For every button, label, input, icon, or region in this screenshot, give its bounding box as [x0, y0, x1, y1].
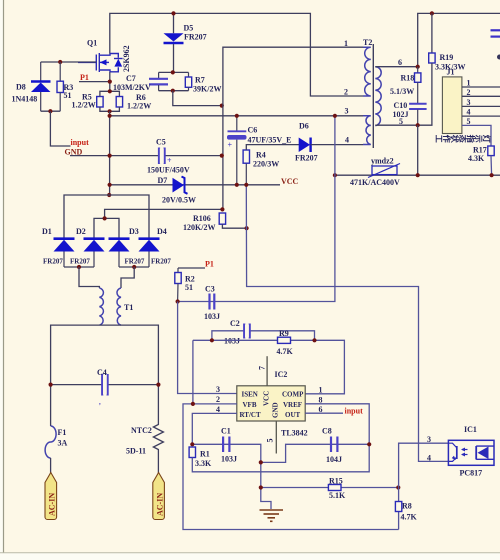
svg-text:FR207: FR207 [151, 258, 171, 266]
wire top rail left [110, 13, 363, 96]
capacitor C7 [149, 72, 168, 90]
connector AC-IN right terminal [153, 473, 165, 520]
diode D3 [109, 239, 130, 267]
svg-text:FR207: FR207 [70, 258, 90, 266]
wire OUT row [305, 412, 343, 414]
svg-text:C5: C5 [156, 138, 166, 147]
diode D4 [139, 239, 160, 267]
wire R2 ISEN column [178, 302, 237, 394]
wire C7 R7 bottom rail [159, 90, 189, 92]
svg-text:PC817: PC817 [460, 469, 483, 478]
svg-text:102J: 102J [393, 110, 409, 119]
svg-text:4: 4 [216, 405, 220, 414]
capacitor C3 [210, 294, 215, 310]
svg-text:471K/AC400V: 471K/AC400V [350, 178, 400, 187]
svg-text:+: + [167, 156, 172, 165]
connector J1 [442, 68, 462, 134]
svg-text:3: 3 [467, 98, 471, 107]
svg-text:1.2/2W: 1.2/2W [72, 101, 96, 110]
svg-text:220/3W: 220/3W [253, 160, 279, 169]
svg-text:2: 2 [467, 88, 471, 97]
node varistor row left junction [333, 173, 337, 177]
wire T1 bottom row [51, 325, 100, 426]
wire ground drop [261, 462, 271, 509]
diode D7 zener [173, 177, 188, 194]
svg-text:120K/2W: 120K/2W [183, 223, 215, 232]
node VFB junction [191, 402, 195, 406]
svg-text:AC-IN: AC-IN [155, 493, 164, 516]
svg-text:150UF/450V: 150UF/450V [147, 166, 190, 175]
wire D8 R3 bottom wire [41, 110, 61, 112]
svg-text:OUT: OUT [285, 411, 301, 419]
LED clipped at right edge [491, 30, 500, 36]
svg-text:R18: R18 [401, 74, 415, 83]
node gate R3 junction [58, 60, 62, 64]
node C4 left junction [49, 383, 53, 387]
resistor R17 [488, 146, 494, 175]
node T2 pin3 junction [333, 114, 337, 118]
node varistor row pin5 junction [416, 173, 420, 177]
svg-text:灯: 灯 [482, 135, 492, 143]
svg-text:P1: P1 [80, 73, 89, 82]
resistor R1 [189, 404, 369, 472]
node dip junction [259, 460, 263, 464]
svg-text:VFB: VFB [243, 401, 257, 409]
capacitor C2 [244, 324, 250, 339]
wire C4 row [51, 384, 159, 386]
IC optocoupler IC1 PC817 [448, 440, 494, 465]
svg-text:39K/2W: 39K/2W [193, 85, 221, 94]
svg-text:5: 5 [467, 117, 471, 126]
wire J1 pin3 row [462, 105, 500, 107]
svg-text:+: + [228, 141, 233, 150]
svg-text:D4: D4 [157, 227, 167, 236]
node R19 tap junction [430, 11, 434, 15]
node Q1 source junction [108, 80, 112, 84]
svg-text:VREF: VREF [283, 401, 302, 409]
svg-text:D5: D5 [184, 24, 194, 33]
svg-text:ymdz2: ymdz2 [371, 157, 394, 166]
capacitor C5 [159, 148, 172, 166]
wire R4 bottom to PC817 route [246, 185, 448, 462]
svg-text:47UF/35V_E: 47UF/35V_E [248, 136, 292, 145]
wire y116 row to T2 pin3 [110, 115, 363, 117]
wire C1 C8 row with dip [192, 444, 369, 462]
capacitor C8 [331, 437, 337, 453]
wire Q1 source lead [109, 72, 111, 91]
node C2 left junction [210, 338, 214, 342]
node pair left junction [77, 265, 81, 269]
svg-text:C7: C7 [126, 74, 136, 83]
svg-text:C2: C2 [230, 319, 240, 328]
svg-text:IC1: IC1 [464, 425, 477, 434]
node D7 row left junction [108, 183, 112, 187]
svg-text:R4: R4 [256, 151, 266, 160]
IC op-amp U IC2 TL3842 box [237, 386, 305, 421]
wire J1 pin1 row [462, 86, 500, 88]
svg-text:C3: C3 [205, 285, 215, 294]
diode D6 [299, 138, 363, 153]
resistor R3 [57, 62, 63, 111]
resistor R5 [97, 91, 120, 107]
svg-text:2: 2 [216, 395, 220, 404]
svg-text:R19: R19 [440, 53, 454, 62]
transistor Q1 MOSFET symbol [78, 53, 123, 72]
svg-text:C1: C1 [221, 427, 231, 436]
resistor R106 [219, 213, 246, 228]
svg-text:103J: 103J [221, 455, 237, 464]
svg-text:103J: 103J [224, 337, 240, 346]
svg-text:R8: R8 [402, 502, 412, 511]
svg-text:D2: D2 [76, 227, 86, 236]
svg-text:R7: R7 [195, 76, 205, 85]
svg-text:input: input [345, 407, 364, 416]
svg-text:104J: 104J [326, 455, 342, 464]
wire J1 pin5 row to R17 [462, 125, 491, 146]
svg-text:T2: T2 [363, 38, 372, 47]
svg-text:COMP: COMP [282, 391, 304, 399]
svg-text:F1: F1 [58, 428, 67, 437]
node C4 right junction [156, 383, 160, 387]
svg-text:20V/0.5W: 20V/0.5W [162, 196, 196, 205]
resistor R7 [185, 72, 191, 90]
svg-text:6: 6 [398, 58, 402, 67]
thermistor NTC2 [153, 422, 163, 454]
node y116 left junction [108, 114, 112, 118]
wire RTCT row riser [192, 413, 237, 444]
wire IC2 pin5 stub [275, 421, 277, 454]
svg-text:4: 4 [467, 108, 471, 117]
node C3 row junction [176, 299, 180, 303]
svg-text:VCC: VCC [281, 177, 299, 186]
wire F1 to terminal [50, 458, 52, 473]
svg-text:8: 8 [319, 395, 323, 404]
wire P1 stub 2 [178, 267, 205, 269]
svg-text:T1: T1 [124, 303, 133, 312]
node D5 top junction [171, 11, 175, 15]
svg-text:C8: C8 [322, 427, 332, 436]
svg-text:AC-IN: AC-IN [48, 493, 57, 516]
transformer T2 secondary winding [375, 67, 381, 126]
svg-text:FR207: FR207 [184, 33, 207, 42]
node R4 bottom junction [244, 183, 248, 187]
wire T2 pin5 row [375, 124, 417, 126]
svg-text:D8: D8 [16, 83, 26, 92]
resistor R4 [243, 145, 299, 185]
resistor R8 [395, 502, 401, 512]
svg-text:R9: R9 [279, 329, 289, 338]
node rail C junction [103, 216, 107, 220]
diode D2 [84, 239, 105, 267]
svg-text:1: 1 [319, 385, 323, 394]
wire VFB row [183, 404, 399, 530]
svg-text:VCC: VCC [263, 391, 271, 406]
svg-text:D3: D3 [129, 227, 139, 236]
node R15 left junction [259, 485, 263, 489]
svg-text:ISEN: ISEN [242, 391, 258, 399]
svg-text:R1: R1 [200, 450, 210, 459]
varistor ymdz2 [368, 164, 400, 178]
wire Q1 gate wire to D8 [41, 61, 97, 63]
node R5R6 top junction [108, 89, 112, 93]
svg-text:RT/CT: RT/CT [240, 411, 261, 419]
svg-text:3A: 3A [58, 439, 68, 448]
svg-text:P1: P1 [205, 260, 214, 269]
node R106 bottom junction [245, 226, 249, 230]
svg-text:IC2: IC2 [275, 370, 288, 379]
wire T2 pin6 row [375, 66, 417, 68]
resistor R6 [100, 97, 123, 112]
svg-text:示: 示 [474, 134, 483, 143]
svg-text:4: 4 [345, 136, 349, 145]
wire T1 winding1 top lead [79, 267, 99, 288]
node C7R7 bottom junction [171, 89, 175, 93]
svg-text:TL3842: TL3842 [281, 429, 308, 438]
svg-text:3: 3 [345, 107, 349, 116]
svg-text:1: 1 [344, 39, 348, 48]
capacitor C1 [223, 437, 229, 453]
svg-text:C6: C6 [248, 126, 258, 135]
wire input stub [50, 111, 70, 146]
transformer T2 primary winding 1 [363, 47, 371, 96]
wire D7 VCC row [110, 184, 280, 186]
connector AC-IN left terminal [45, 473, 57, 520]
svg-text:J1: J1 [447, 68, 455, 77]
wire C7R7 bottom drop to x222 [173, 91, 222, 106]
svg-text:FR207: FR207 [125, 258, 145, 266]
transformer T2 core [372, 44, 374, 148]
wire GND C5 row [70, 155, 222, 157]
node R106 top junction [220, 207, 224, 211]
node C8 right junction [367, 442, 371, 446]
wire pin6 riser and top rail right [418, 13, 500, 66]
svg-text:7: 7 [258, 366, 267, 370]
inductor T1 winding 2 [117, 288, 121, 325]
svg-text:FR207: FR207 [295, 154, 318, 163]
fuse F1 [45, 426, 56, 458]
wire NTC2 to terminal [157, 454, 159, 474]
wire R9 row [193, 340, 345, 394]
svg-text:4: 4 [427, 454, 431, 463]
wire PC817 pin3 column [399, 443, 449, 529]
capacitor C6 electrolytic [227, 116, 247, 185]
capacitor C10 [409, 104, 427, 125]
wire J1 pin2 row [462, 95, 500, 97]
node C5 row right junction [220, 154, 224, 158]
svg-text:103J: 103J [204, 312, 220, 321]
diode D5 [164, 33, 184, 43]
resistor R9 [278, 337, 291, 343]
svg-text:,: , [99, 398, 101, 406]
resistor R2 [175, 268, 181, 302]
svg-text:工: 工 [434, 135, 443, 143]
svg-text:4.7K: 4.7K [277, 347, 294, 356]
capacitor C4 [99, 374, 108, 406]
svg-text:R15: R15 [329, 477, 343, 486]
svg-text:3.3K: 3.3K [195, 459, 212, 468]
svg-text:C10: C10 [394, 101, 408, 110]
node pin6 junction [416, 65, 420, 69]
svg-text:2SK962: 2SK962 [122, 45, 131, 72]
svg-text:1.2/2W: 1.2/2W [127, 102, 151, 111]
node C5 row left junction [108, 154, 112, 158]
svg-text:D6: D6 [299, 122, 309, 131]
wire pin5 to varistor row riser [417, 125, 419, 175]
wire R15 row [261, 487, 399, 489]
wire P1 stub [79, 81, 110, 83]
node bridge rail A junction [107, 193, 111, 197]
node C6 bottom junction [235, 183, 239, 187]
wire varistor row [335, 174, 500, 176]
svg-text:1N4148: 1N4148 [12, 95, 38, 104]
node varistor row R17 junction [490, 173, 494, 177]
wire T1 winding2 top lead [121, 267, 134, 288]
wire D3 D4 pair join [119, 266, 149, 268]
wire bridge rail A [64, 195, 149, 238]
svg-text:NTC2: NTC2 [131, 426, 152, 435]
wire left vertical column [109, 111, 111, 195]
svg-text:1: 1 [467, 79, 471, 88]
svg-text:3: 3 [216, 385, 220, 394]
node R15 right junction [396, 485, 400, 489]
node C1 row left junction [190, 442, 194, 446]
diode D1 [54, 239, 75, 267]
node pair right junction [132, 265, 136, 269]
resistor R19 [418, 13, 435, 125]
svg-text:GND: GND [272, 402, 280, 418]
inductor T1 winding 1 [99, 288, 103, 325]
svg-text:FR207: FR207 [43, 258, 63, 266]
label J1 chinese caption [434, 134, 492, 144]
wire J1 pin4 row [462, 115, 500, 117]
svg-text:3: 3 [427, 435, 431, 444]
svg-text:5D-11: 5D-11 [126, 447, 146, 456]
node pin5 junction [416, 123, 420, 127]
svg-text:4.7K: 4.7K [401, 513, 418, 522]
wire bridge row B to R106 [105, 209, 223, 218]
resistor R18 [415, 67, 421, 103]
wire IC2 pin7 stub [266, 356, 268, 386]
node x222 junction with C7R7 rail [220, 104, 224, 108]
ground symbol [260, 510, 284, 521]
wire C2 row [212, 331, 315, 341]
svg-text:D1: D1 [42, 227, 52, 236]
node C7R7 top junction [171, 70, 175, 74]
node clipped junction at right edge [497, 55, 500, 60]
resistor R15 [328, 485, 341, 491]
wire D1 D2 pair join [64, 266, 94, 268]
node D8 bottom junction [48, 109, 52, 113]
wire R9 VFB riser [192, 340, 194, 404]
node C2 right junction [312, 338, 316, 342]
svg-text:5.1/3W: 5.1/3W [390, 87, 414, 96]
svg-text:51: 51 [64, 91, 72, 100]
wire x334.9 vertical column [178, 116, 335, 302]
node R5R6 bottom junction [108, 109, 112, 113]
svg-text:5: 5 [266, 439, 275, 443]
svg-text:Q1: Q1 [87, 39, 97, 48]
svg-text:input: input [71, 138, 90, 147]
svg-text:D7: D7 [158, 176, 168, 185]
wire T1 bottom row right [99, 325, 158, 421]
wire C7 R7 top rail [159, 71, 189, 73]
svg-text:C4: C4 [97, 368, 107, 377]
svg-text:2: 2 [344, 88, 348, 97]
wire bridge rail C [94, 218, 119, 238]
svg-text:R106: R106 [193, 214, 211, 223]
node C6 top junction [235, 114, 239, 118]
wire D5 bottom lead [173, 44, 175, 72]
wire D5 top lead [173, 13, 175, 33]
diode D8 [31, 62, 51, 111]
transformer T2 primary winding 2 [363, 116, 371, 145]
wire T2 pin1 wire and x222 vertical [223, 47, 363, 209]
svg-text:51: 51 [185, 283, 193, 292]
svg-text:4.3K: 4.3K [468, 154, 485, 163]
svg-text:5.1K: 5.1K [329, 491, 346, 500]
